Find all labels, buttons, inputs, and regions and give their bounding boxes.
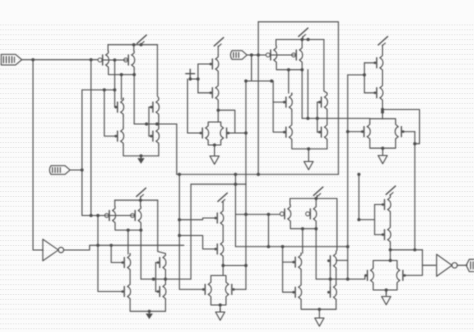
junction cell1 drain b [133, 73, 136, 76]
wire br link [389, 214, 391, 226]
junction cell1 rail a [132, 43, 135, 46]
wire cell2 t1 gate [198, 63, 211, 65]
wire cell2 t1-t2 link [217, 73, 219, 84]
wire bl rail end down [158, 200, 166, 253]
junction brm mid b [346, 278, 349, 281]
power VDD cell2 [214, 38, 224, 47]
wire cell1 vdd rail [108, 44, 157, 46]
wire mid route down [257, 22, 259, 175]
wire brm lstack gate feed2 [283, 262, 295, 292]
nmos PR bottomright [397, 266, 406, 284]
nmos PR midright [395, 123, 404, 141]
wire cell1 p1 drain [108, 69, 135, 75]
junction clk2 a [250, 53, 253, 56]
junction brm rail a [315, 197, 318, 200]
wire Y246 route [236, 246, 348, 248]
junction brm bottom [318, 308, 321, 311]
junction brm mid a [329, 278, 332, 281]
wire plus to gate [190, 78, 198, 79]
nmos N4 brm [327, 283, 336, 301]
junction brp bottom [385, 288, 388, 291]
junction clk vertical [80, 168, 83, 171]
wire cell2 drain [217, 102, 219, 122]
wire cell3 left gate feed [273, 81, 285, 102]
junction ladder x235 mid [234, 183, 237, 186]
junction brm drain a [301, 227, 304, 230]
junction cell3 mid b [316, 117, 319, 120]
nmos T1 bottomright [382, 196, 391, 214]
ground bottomleft [146, 311, 153, 319]
junction cell2 plus [196, 77, 199, 80]
wire cell3 n2 bottom [292, 141, 327, 149]
wire clk2 net [247, 54, 271, 56]
wire mr right gate [403, 131, 415, 133]
wire brm out down-left [302, 229, 304, 253]
wire right tall vertical [414, 132, 416, 250]
pmos P1 cell3 [266, 46, 277, 64]
wire brm gate link stack [329, 266, 331, 288]
junction clkfeed a [103, 88, 106, 91]
inverter A triangle [43, 239, 59, 261]
wire cell1 p2 source [133, 45, 135, 51]
junction brm drain b [315, 227, 318, 230]
power VDD bottommiddle [218, 193, 228, 202]
junction cell3 rail a [301, 38, 304, 41]
wire cell1 vdd stem [140, 44, 142, 45]
wire tr vdd stem [382, 45, 384, 54]
wire cell1 n3-n4 link [158, 116, 160, 127]
wire brm gate line [236, 213, 285, 215]
wire bl p1 source [114, 200, 116, 206]
wire cell2 pair top [208, 122, 221, 124]
wire bl gate line [82, 215, 134, 217]
wire tall left vertical [347, 75, 349, 279]
wire bl gate link stack [155, 263, 157, 292]
wire cell2 t2 gate [198, 92, 211, 94]
wire cell1 gate link [103, 59, 127, 61]
pmos P2 cell1 [124, 51, 135, 69]
wire cell1 gate link stack [148, 107, 150, 136]
wire mr pair bottom [370, 141, 396, 149]
wire cell2 gate vertical [197, 64, 199, 93]
junction clkb top [178, 173, 181, 176]
pmos P2 bottomleft [131, 207, 142, 225]
nmos N4 bottomleft [157, 283, 166, 301]
junction clkfeed b [113, 88, 116, 91]
wire cell1 n3 gate stub [149, 106, 153, 108]
input port clk2 [231, 51, 248, 60]
wire br vdd stem [389, 195, 391, 196]
wire bl gate drop [98, 216, 124, 292]
wire cell3 n4 gate stub [317, 131, 321, 133]
wire cell3 n3 gate stub [317, 101, 321, 103]
power VDD brm [314, 187, 324, 196]
nmos T2 bottomright [382, 226, 391, 244]
junction cell1 rail b [139, 43, 142, 46]
junction y246 b [281, 245, 284, 248]
wire mr gnd stem [382, 148, 384, 150]
junction bm cross [244, 264, 247, 267]
wire cell3 p2 drain [301, 64, 303, 70]
pmos P2 cell3 [292, 46, 303, 64]
junction bl bottom [148, 310, 151, 313]
wire bl p2 source [140, 200, 142, 206]
wire tallleft to stack [336, 259, 348, 261]
wire br drain net drop [405, 250, 423, 276]
wire bm gnd stem [219, 305, 221, 312]
wire clk to junction [70, 169, 82, 171]
junction cell3 drain b [301, 68, 304, 71]
junction y246 a [267, 245, 270, 248]
nmos N1 cell1 [115, 98, 124, 116]
junction cell1 bottom [139, 154, 142, 157]
junction cell3 bottom [307, 147, 310, 150]
wire clk2 ladder rung [246, 80, 273, 82]
nmos N2 bottomleft [121, 283, 130, 301]
wire brp gnd stem [385, 290, 387, 294]
wire cell1 gate drop [115, 60, 117, 107]
wire bl p1 drain [115, 225, 142, 231]
nmos PR bottommiddle [226, 280, 235, 298]
junction bl gate b [96, 214, 99, 217]
junction bl mid b [164, 278, 167, 281]
wire br drain [389, 244, 391, 261]
ground bottommiddle [216, 308, 225, 320]
junction data/x91 [89, 58, 92, 61]
wire brm n2 bottom [301, 301, 336, 309]
wire brm mid rail [316, 275, 366, 279]
wire clkb drop [179, 174, 203, 289]
wire brm gnd stem [318, 309, 320, 311]
wire cell3 vdd rail [276, 39, 324, 41]
wire cell3 p1 source [275, 40, 277, 46]
wire tr drain loop [383, 110, 420, 144]
wire bl vdd rail [115, 199, 158, 201]
wire bm drain [222, 258, 224, 276]
ground bottomright [382, 291, 391, 305]
wire brm mid vertical [315, 229, 317, 279]
ground cell2 [210, 148, 219, 164]
junction clkb a [178, 218, 181, 221]
inverter B triangle [437, 254, 452, 276]
wire cell2 vdd stem [217, 46, 219, 55]
wire cell1 rail end down [157, 45, 158, 98]
junction cell3 drain a [287, 68, 290, 71]
wire bl n3 gate stub [156, 262, 160, 264]
power VDD bottomleft [136, 188, 146, 197]
junction cell1 mid a [145, 122, 148, 125]
wire data branch down [90, 60, 92, 216]
wire mr pair top [370, 119, 396, 123]
junction tr gates [363, 73, 366, 76]
junction clk2 b [257, 53, 260, 56]
wire bl p2 drain [140, 225, 142, 231]
wire br gate feed [359, 219, 375, 221]
wire inverter B output [457, 264, 467, 266]
wire tr drain [382, 102, 384, 119]
wire cell1 n4 bottom [158, 145, 160, 156]
wire brp bottom [373, 284, 397, 290]
wire data net [22, 59, 103, 61]
wire bm pair right gate [234, 288, 246, 290]
pmos P1 bottomleft [105, 207, 116, 225]
nmos N4 cell1 [150, 127, 159, 145]
wire clk vertical [81, 90, 83, 216]
nmos N1 bottomleft [121, 254, 130, 272]
inverter A bubble [58, 247, 63, 252]
wire cell2 drain stub right [218, 110, 235, 133]
ground brm [315, 311, 324, 326]
wire cell3 n1 top [291, 93, 293, 95]
wire cell1 p2 drain [133, 69, 135, 75]
junction cell3 mid [306, 117, 309, 120]
power VDD topright [378, 37, 388, 46]
nmos T1 topright [374, 54, 383, 72]
wire ladder drop x235 [235, 174, 237, 246]
wire brm n1 top [300, 253, 302, 255]
wire brm p2 source [315, 199, 317, 205]
wire inverter A output [64, 245, 184, 250]
wire cell3 rail end down [324, 40, 327, 94]
wire pairgate left vertical [188, 79, 202, 133]
wire brm p2 drain [315, 223, 317, 229]
ground midright [378, 150, 387, 164]
nmos N3 cell3 [318, 93, 327, 111]
wire bl vdd stem [140, 197, 142, 201]
nmos PL bottommiddle [202, 280, 211, 298]
wire bl mid vertical [140, 230, 142, 279]
wire cell1 n1-n2 link [122, 116, 124, 127]
wire cell1 n1 top [122, 98, 124, 99]
wire ladder left drop [190, 184, 192, 279]
wire top route [258, 22, 338, 175]
junction brp top [389, 259, 392, 262]
wire long mid route [177, 173, 339, 175]
wire brm n4 bottom [335, 301, 337, 309]
wire cell1 out down-left [120, 75, 122, 100]
junction gate line a [244, 213, 247, 216]
nmos N3 brm [327, 252, 336, 270]
junction mr pair bottom [381, 147, 384, 150]
wire bl out down-left [127, 230, 129, 254]
junction data/x33 [31, 58, 34, 61]
wire cell3 gate link stack [316, 102, 318, 132]
junction rtv a [413, 142, 416, 145]
power VDD cell3 [299, 28, 309, 37]
junction mr left gate [346, 130, 349, 133]
junction invA out a [96, 244, 99, 247]
wire t2 gate feed bm [179, 236, 216, 250]
wire bm vdd stem [222, 202, 224, 210]
wire cell3 left gate feed2 [273, 102, 285, 132]
junction cell3 rail b [307, 38, 310, 41]
junction br gates feed [357, 218, 360, 221]
junction cell1 gate mid [113, 58, 116, 61]
junction cell1 mid b [155, 122, 158, 125]
wire t1 gate feed bm [179, 218, 216, 220]
wire bm pair top [211, 276, 226, 281]
nmos PL bottomright [364, 266, 373, 284]
wire mid route up-left [176, 124, 178, 174]
wire cell3 n4 bottom [326, 141, 328, 149]
junction pair top feed [381, 110, 384, 113]
wire cell3 gate link [271, 54, 295, 56]
nmos T1 cell2 [209, 55, 218, 73]
plus symbol cell2 [186, 69, 195, 78]
wire bl n4 gate stub [156, 291, 160, 293]
wire bm pair bottom [211, 298, 226, 305]
wire nmos lower gate feed [104, 90, 117, 136]
wire cell2 pair bottom [208, 142, 221, 145]
nmos N3 bottomleft [157, 254, 166, 272]
wire cell3 vdd stem [302, 37, 304, 40]
wire brm n1-n2 link [300, 271, 302, 283]
wire invout to gate [111, 245, 124, 262]
wire cell2 gnd stem [214, 145, 216, 148]
nmos N1 brm [292, 253, 301, 271]
junction cell2 drain [217, 109, 220, 112]
junction invA out b [110, 244, 113, 247]
wire cell1 n2 bottom [123, 145, 158, 156]
wire cell1 mid vertical [133, 75, 135, 124]
junction rtv b [413, 248, 416, 251]
pmos P2 brm [306, 205, 317, 223]
wire brm rail end down [335, 199, 338, 252]
wire tr link [382, 72, 384, 84]
wire cell3 n3-n4 link [326, 111, 328, 123]
wire bl n3-n4 link [165, 272, 167, 283]
nmos T2 topright [374, 84, 383, 102]
junction bl rail a [139, 199, 142, 202]
wire ladder rung y184 [191, 183, 246, 185]
wire bl n1 top [129, 253, 131, 256]
wire invB input stub [422, 264, 435, 266]
junction gate line b [267, 213, 270, 216]
nmos PL cell2 pair [199, 124, 208, 142]
nmos N3 cell1 [150, 98, 159, 116]
junction ladder a [244, 79, 247, 82]
wire mr left gate [348, 131, 363, 133]
junction bl drain a [127, 229, 130, 232]
wire midroute drop [358, 174, 360, 219]
junction ladder b [270, 79, 273, 82]
wire cell3 n1-n2 link [291, 111, 293, 123]
inverter B bubble [452, 263, 457, 268]
ground cell3 [304, 151, 313, 170]
nmos T2 cell2 [209, 84, 218, 102]
nmos N4 cell3 [318, 123, 327, 141]
junction tr drain [381, 108, 384, 111]
junction midroute a [257, 173, 260, 176]
wire brm vdd rail [290, 198, 337, 200]
power VDD bottomright [386, 186, 396, 195]
wire brp top [373, 261, 397, 267]
nmos PL midright [361, 123, 370, 141]
nmos T1 bottommiddle [214, 209, 223, 227]
wire brm vdd stem [316, 196, 318, 199]
wire cell2 pair top link [218, 121, 221, 123]
wire clk gate feed [82, 89, 115, 91]
output port q [466, 259, 474, 271]
junction y246 c [346, 245, 349, 248]
wire brm p1 drain [290, 223, 317, 229]
wire cell2 pair right gate [228, 132, 246, 134]
wire bl mid rail [141, 278, 191, 280]
junction ladder x235 top [234, 173, 237, 176]
junction clkb b [178, 234, 181, 237]
wire x245 long vertical [245, 81, 247, 289]
wire data to inverter A input [33, 60, 43, 250]
junction cell1 drain a [120, 73, 123, 76]
wire cell3 p1 drain [276, 64, 303, 70]
nmos T2 bottommiddle [214, 240, 223, 258]
wire br gate vertical [374, 205, 376, 235]
junction br drain [389, 248, 392, 251]
wire brm lstack gate feed [283, 247, 295, 263]
wire bl n4 bottom [165, 301, 167, 312]
wire tr gate feed [348, 74, 365, 76]
wire drop 268 [268, 214, 270, 246]
pmos P1 cell1 [98, 51, 109, 69]
wire cell3 out down-left [288, 70, 290, 93]
nmos PR cell2 pair [220, 124, 229, 142]
wire cell3 pair feed vertical [307, 70, 309, 119]
wire bl n2 bottom [130, 301, 165, 312]
nmos N2 cell1 [115, 127, 124, 145]
wire bm drain cross [223, 265, 246, 267]
wire brm n3-n4 link [335, 270, 337, 284]
junction bl gate a [89, 214, 92, 217]
input port clk [50, 166, 71, 175]
wire tr t1 gate [364, 62, 375, 64]
junction bl drain b [139, 229, 142, 232]
wire cell3 p2 source [301, 40, 303, 46]
wire brm p1 source [289, 199, 291, 205]
junction midroute b [357, 173, 360, 176]
nmos N2 cell3 [283, 123, 292, 141]
wire br t2 gate [375, 234, 384, 236]
junction plus left [189, 77, 192, 80]
wire bm link [222, 227, 224, 240]
input port data [1, 54, 22, 65]
ground cell1 [137, 156, 144, 164]
pmos P1 brm [280, 205, 291, 223]
wire cell3 mid vertical [301, 70, 303, 119]
wire br t1 gate [375, 204, 384, 206]
nmos N2 brm [292, 283, 301, 301]
wire cell1 mid rail [134, 123, 177, 125]
wire bl n1-n2 link [129, 272, 131, 283]
junction cell2 pair bottom [213, 143, 216, 146]
junction bm pair bottom [219, 303, 222, 306]
wire tr t2 gate [364, 92, 375, 94]
wire tr gate vertical [363, 63, 365, 93]
junction bl mid a [152, 278, 155, 281]
wire cell1 n4 gate stub [149, 135, 153, 137]
junction bm drain [222, 264, 225, 267]
wire cell1 p1 source [107, 45, 109, 51]
wire cell3 mid rail [302, 117, 370, 119]
junction x245 gate [244, 131, 247, 134]
nmos N1 cell3 [283, 93, 292, 111]
power VDD cell1 [137, 35, 147, 44]
wire br drain net [390, 249, 422, 251]
wire clk2 ladder drop [251, 55, 253, 81]
